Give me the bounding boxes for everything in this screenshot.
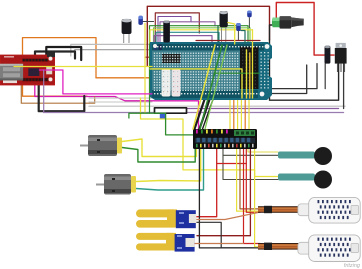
wire green mid to driver xyxy=(129,113,193,135)
soil sensor S2 xyxy=(136,233,195,252)
wire darkgreen led stub xyxy=(217,26,219,43)
wire motor2 yellow xyxy=(136,149,201,182)
wire yellow band xyxy=(150,30,253,43)
soil sensor S1 xyxy=(136,209,196,228)
wire bundle yellow 4 xyxy=(248,98,250,129)
wire yellow dht1 xyxy=(237,149,260,211)
wire maroon stub board left xyxy=(145,56,152,58)
wire orange loop top-left xyxy=(23,38,97,97)
wire red soil1 xyxy=(196,149,217,217)
top header pin row xyxy=(157,46,263,47)
wire yellow over proto A xyxy=(246,50,248,98)
svg-text:fritzing: fritzing xyxy=(344,263,361,269)
wire purple rect3 xyxy=(158,17,191,44)
dht sensor T2 cable xyxy=(258,243,300,250)
wire violet long B horiz xyxy=(44,112,344,114)
wire black right vertical xyxy=(270,40,339,100)
wire yellow usb to arduino xyxy=(14,66,152,68)
wire gray D long xyxy=(89,105,345,107)
wire purple band top xyxy=(160,22,215,43)
wire gray C xyxy=(89,97,152,99)
wire green over breadboard xyxy=(214,72,259,74)
wire copper soil2 xyxy=(195,243,244,245)
motor M2 xyxy=(96,174,136,195)
led D2 blue xyxy=(247,11,252,28)
driver board U3 xyxy=(193,129,257,149)
wire maroon top long xyxy=(147,6,269,66)
wire purple band low xyxy=(154,36,212,43)
part blue stub mid xyxy=(160,113,165,119)
probe P2 temperature xyxy=(278,171,332,189)
wire dark regulator leg B xyxy=(343,64,345,109)
wire green band xyxy=(150,26,249,114)
wire copper soil1 xyxy=(196,213,258,220)
wire probe1 black lead xyxy=(223,154,278,156)
dht sensor T2 xyxy=(298,235,360,262)
wire bundle orange 1 xyxy=(233,98,235,129)
wire black dht2 xyxy=(199,149,260,248)
wire black ribbon diag 1 xyxy=(195,98,206,129)
wire dark cap leg xyxy=(324,64,326,89)
wire bundle orange 2 xyxy=(244,98,246,129)
barrel jack J1 xyxy=(272,16,304,28)
wire black soil1 out xyxy=(196,222,258,248)
wire maroon soil2 xyxy=(197,149,250,236)
wire magenta A xyxy=(39,70,152,94)
wire gray C2 xyxy=(89,101,152,103)
capacitor C4 xyxy=(325,46,331,64)
wire bundle yellow 2 xyxy=(237,98,239,129)
wire magenta B to driver xyxy=(35,83,199,129)
wire maroon above top header xyxy=(196,40,260,42)
wire probe1 yellow lead xyxy=(248,149,278,152)
probe P1 temperature xyxy=(278,147,332,165)
wire red barrel jack xyxy=(276,3,334,56)
breadboard hole grid xyxy=(154,53,239,91)
wire bundle yellow 1 xyxy=(229,98,231,129)
wire yellow cap C lead xyxy=(228,23,235,45)
wire probe black leads xyxy=(223,149,278,180)
wire yellow short left xyxy=(144,24,146,113)
wire black barrel jack gnd xyxy=(270,25,275,40)
bottom header pin row xyxy=(154,93,257,94)
wire bundle yellow 3 xyxy=(240,98,242,129)
wire black stub mid xyxy=(155,108,187,113)
wire teal led C lead xyxy=(241,31,245,45)
wire gray B xyxy=(75,50,152,56)
capacitor C2 xyxy=(163,21,170,43)
regulator Q1 TO-220 xyxy=(335,43,347,72)
motor M1 xyxy=(80,135,122,156)
wire black ribbon diag 2 xyxy=(200,98,211,129)
led D1 blue xyxy=(138,16,154,25)
wire yellow arduino to driver left xyxy=(141,98,279,177)
wire black U1 above usb board xyxy=(35,52,75,59)
wire motor2 teal xyxy=(136,149,204,190)
wire orange to arduino xyxy=(96,77,152,79)
wire yellow over breadboard xyxy=(150,69,242,98)
wire gray A xyxy=(71,44,150,56)
wire black U2 above usb board xyxy=(46,47,81,60)
capacitor C1 xyxy=(122,19,132,43)
wire yellow dht2 xyxy=(255,149,260,247)
arduino mega with breadboard shield U1 xyxy=(150,42,272,100)
dht sensor T1 cable xyxy=(258,206,300,213)
wire black ribbon diag 3 xyxy=(203,98,214,129)
wire red dht1 xyxy=(246,149,260,212)
wire violet long A xyxy=(155,108,339,110)
wire yellow band right vert xyxy=(252,30,254,98)
wire yellow diagonal over board xyxy=(193,45,215,129)
wire red dht2 xyxy=(244,149,261,244)
wire black regulator leg A xyxy=(270,64,317,89)
wire black U below usb board xyxy=(39,83,85,111)
led D3 blue xyxy=(236,23,241,40)
wire violet long B vert xyxy=(43,70,45,113)
capacitor C3 xyxy=(220,11,228,42)
wire lightgreen band xyxy=(154,28,251,43)
proto area grid xyxy=(242,50,256,89)
wire maroon rect2 xyxy=(155,13,199,43)
wire red cross H xyxy=(217,163,247,165)
wire brown dht1 xyxy=(240,149,260,209)
wire lightgreen diagonal over board xyxy=(205,45,227,129)
wire brown below usb board xyxy=(21,83,94,103)
dht sensor T1 xyxy=(298,197,360,223)
wire orange over proto xyxy=(249,53,251,98)
wire teal band xyxy=(156,32,219,43)
wire green diagonal over board xyxy=(200,45,222,129)
wire motor1 green xyxy=(122,148,195,163)
wire black leg vert xyxy=(272,65,307,94)
wire motor1 yellow xyxy=(122,139,196,157)
usb serial board U2 xyxy=(0,53,55,86)
